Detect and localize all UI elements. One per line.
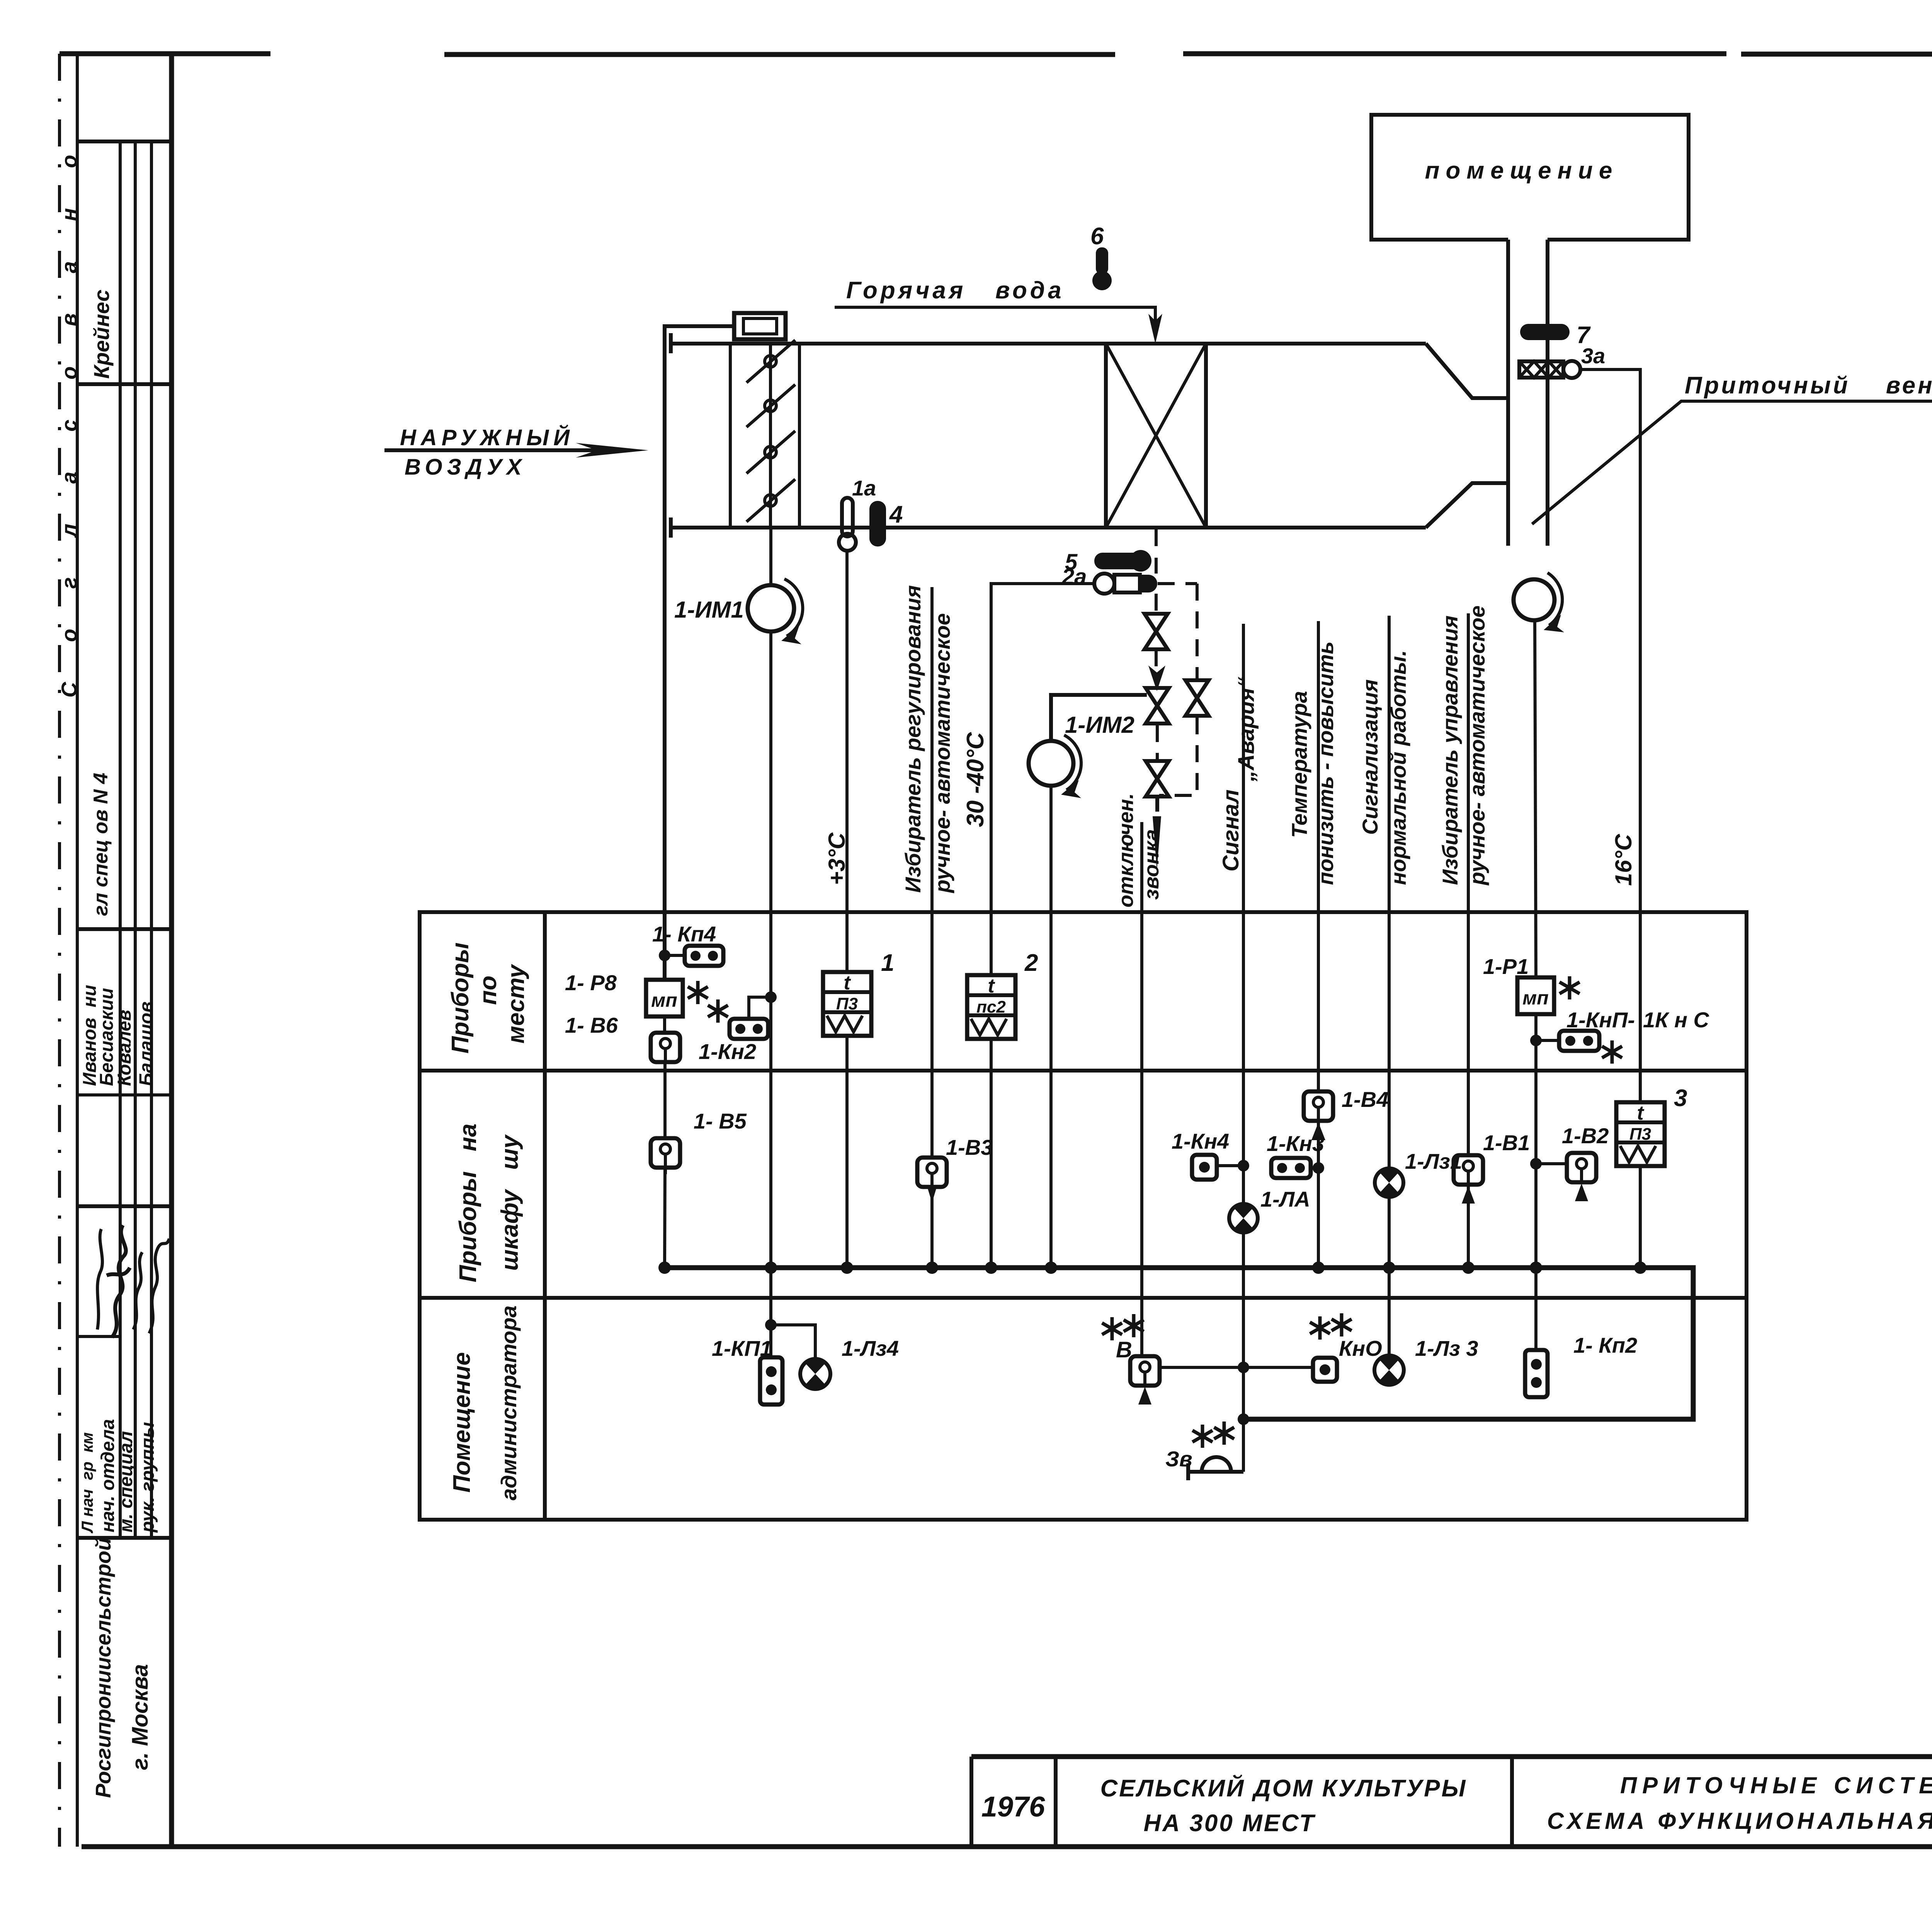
stamp column left rule <box>76 54 79 1847</box>
svg-text:3а: 3а <box>1581 344 1605 368</box>
stamp divider 3 <box>77 927 172 931</box>
junction to 1-Kp4 <box>659 950 670 961</box>
cabinet bus <box>665 1268 1693 1419</box>
sensor 2a body <box>1114 575 1140 592</box>
stamp signature squiggle 3 <box>133 1252 142 1330</box>
lamp 1-Lz1 <box>1375 1168 1403 1197</box>
wire IM2 down <box>1049 786 1053 1268</box>
stamp divider 4 <box>77 1093 172 1096</box>
svg-text:шкафу шу: шкафу шу <box>497 1134 523 1271</box>
stamp inner rule c <box>150 141 153 1538</box>
svg-text:Горячая вода: Горячая вода <box>846 277 1065 304</box>
lamp 1-Lz4 <box>800 1359 830 1389</box>
switch 1-V1 <box>1454 1155 1483 1185</box>
svg-text:понизить - повысить: понизить - повысить <box>1313 642 1338 885</box>
bus node 5 <box>985 1262 997 1274</box>
wire bus to Kp2 <box>1534 1268 1537 1350</box>
stamp inner rule a <box>119 141 122 1538</box>
AHU outlet taper bottom <box>1426 483 1508 528</box>
bus node 7 <box>1312 1262 1325 1274</box>
long drain arrow <box>1153 816 1161 870</box>
damper actuator box <box>734 313 786 339</box>
svg-text:пс2: пс2 <box>976 998 1006 1016</box>
svg-text:t: t <box>844 972 851 994</box>
wire MP to V6 <box>663 1016 666 1033</box>
dashed valve1 to arrow <box>1155 651 1158 672</box>
svg-text:НА 300 МЕСТ: НА 300 МЕСТ <box>1144 1810 1316 1837</box>
svg-text:П3: П3 <box>836 994 858 1013</box>
louver blade 3 <box>747 431 795 473</box>
duct inlet tick top <box>669 333 673 353</box>
valve V2 <box>1146 688 1169 724</box>
duct bottom wall <box>671 526 1426 529</box>
svg-text:рук. группы: рук. группы <box>138 1422 158 1533</box>
svg-text:В: В <box>1116 1337 1132 1362</box>
avaria wire lamp to lower bus <box>1242 1233 1245 1419</box>
wire damper to IM1 <box>769 528 772 585</box>
svg-text:1К н С: 1К н С <box>1643 1008 1710 1032</box>
svg-text:м. специал: м. специал <box>116 1431 136 1533</box>
table row divider 2 <box>420 1296 1747 1300</box>
dashed drop from duct <box>1155 528 1158 574</box>
svg-text:4: 4 <box>889 501 903 528</box>
stamp divider 6 short <box>77 1335 120 1338</box>
label stars V <box>1102 1317 1122 1340</box>
stamp signature squiggle 2 <box>107 1225 130 1337</box>
sensor 2a black cap <box>1140 575 1157 592</box>
link V KnO <box>1160 1366 1313 1369</box>
bus node 1 <box>658 1262 671 1274</box>
fan duct left wall <box>1506 240 1510 546</box>
thermometer 6 bulb <box>1092 271 1112 290</box>
svg-text:2а: 2а <box>1061 564 1087 589</box>
svg-text:1-Кн2: 1-Кн2 <box>699 1039 756 1064</box>
svg-text:1-В3: 1-В3 <box>946 1135 993 1159</box>
actuator link IM2 to valve2 <box>1051 695 1147 741</box>
sensor 3a body <box>1519 361 1563 378</box>
svg-text:1- В5: 1- В5 <box>694 1109 747 1133</box>
wire V4 to bus <box>1317 1121 1320 1268</box>
instrument 1 t P3 <box>823 972 871 1036</box>
actuator 1-IM2 circle <box>1029 741 1073 786</box>
switch 1-V3 <box>917 1158 947 1187</box>
svg-text:Избиратель управления: Избиратель управления <box>1438 615 1462 885</box>
svg-text:ПРИТОЧНЫЕ СИСТЕМЫ ПС1 (ПС: ПРИТОЧНЫЕ СИСТЕМЫ ПС1 (ПС2) <box>1620 1772 1932 1798</box>
dashed capsule to valve 1 <box>1155 594 1158 614</box>
heater box right wall <box>1204 344 1208 528</box>
fan motor rotation arc <box>1548 573 1562 625</box>
sensor 2a circle <box>1094 574 1114 594</box>
stamp inner rule b <box>134 141 137 1538</box>
wire Lz1 to bus <box>1388 1197 1391 1268</box>
svg-text:Сигнализация: Сигнализация <box>1358 679 1382 835</box>
svg-text:П3: П3 <box>1629 1125 1651 1144</box>
switch 1-V6 <box>651 1033 680 1062</box>
svg-text:t: t <box>988 975 995 997</box>
button 1-Kn2 <box>730 1019 768 1039</box>
louver damper axis <box>769 344 772 528</box>
wire R1 column through shkaf row <box>1534 1014 1537 1268</box>
starter MP 1-R8 <box>646 980 683 1016</box>
wire selector-control column <box>1467 613 1470 1155</box>
title block top line <box>971 1754 1932 1759</box>
svg-text:6: 6 <box>1090 223 1104 250</box>
fan wire down <box>1535 620 1536 977</box>
svg-text:Сигнал: Сигнал <box>1218 790 1243 872</box>
duct top wall <box>671 342 1426 346</box>
admin drop junction <box>769 1268 772 1357</box>
svg-text:1- Кп4: 1- Кп4 <box>652 922 716 946</box>
svg-text:г. Москва: г. Москва <box>128 1664 153 1770</box>
svg-text:1: 1 <box>881 950 894 976</box>
svg-text:1-Кн3: 1-Кн3 <box>1267 1131 1324 1156</box>
svg-text:ВОЗДУХ: ВОЗДУХ <box>405 455 526 480</box>
heater diagonal 2 <box>1106 344 1206 528</box>
stamp divider 5 <box>77 1204 172 1208</box>
svg-text:1976: 1976 <box>981 1791 1045 1823</box>
hot water line <box>835 307 1155 332</box>
thermometer 1a bulb <box>839 534 856 551</box>
duct inlet tick bottom <box>669 518 673 538</box>
bus node 11 <box>1634 1262 1646 1274</box>
wire signalling column <box>1388 616 1391 1168</box>
louver pivot 2 <box>765 400 776 412</box>
fan motor circle <box>1514 579 1554 620</box>
bus node 4 <box>926 1262 938 1274</box>
stamp divider 2 <box>77 382 172 386</box>
button 1-Kn4 <box>1192 1155 1217 1180</box>
star KnP <box>1602 1040 1622 1064</box>
thermometer 6 stem <box>1096 247 1108 274</box>
svg-text:по: по <box>475 976 502 1005</box>
svg-text:нормальной работы.: нормальной работы. <box>1386 650 1410 885</box>
svg-text:+3°С: +3°С <box>824 832 850 885</box>
svg-text:30 -40°С: 30 -40°С <box>962 732 989 827</box>
junction V2 <box>1530 1158 1542 1170</box>
star R1 <box>1560 976 1580 999</box>
louver blade 2 <box>747 385 795 427</box>
sensor 3a circle <box>1563 361 1580 378</box>
fan duct right wall <box>1546 240 1549 546</box>
filter section wall right <box>798 344 801 528</box>
wire 16C column <box>1580 369 1640 1102</box>
svg-text:1-Лз4: 1-Лз4 <box>842 1336 899 1360</box>
svg-text:1-В2: 1-В2 <box>1562 1124 1609 1148</box>
svg-text:НАРУЖНЫЙ: НАРУЖНЫЙ <box>400 425 574 450</box>
stamp signature squiggle 4 <box>149 1239 169 1333</box>
svg-text:Приточный вентилятор: Приточный вентилятор <box>1685 372 1932 399</box>
svg-text:администратора: администратора <box>497 1306 521 1500</box>
wire instr2 to bus <box>990 1039 993 1268</box>
bypass dashed top <box>1158 582 1197 585</box>
damper actuator feed line <box>665 326 734 980</box>
AHU outlet taper top <box>1426 344 1508 398</box>
svg-text:1-Кн4: 1-Кн4 <box>1172 1129 1229 1153</box>
svg-text:1-ИМ2: 1-ИМ2 <box>1065 712 1134 738</box>
wire instr3 to bus <box>1639 1166 1642 1268</box>
svg-text:ручное- автоматическое: ручное- автоматическое <box>1465 606 1489 886</box>
button KnO <box>1313 1358 1337 1382</box>
svg-text:1- Р8: 1- Р8 <box>565 970 617 995</box>
thermometer 5 body <box>1094 553 1141 569</box>
svg-text:Приборы на: Приборы на <box>455 1124 481 1282</box>
wire V6 to V5 <box>663 1062 667 1138</box>
outside air arrow <box>384 448 607 452</box>
button 1-Kn3 <box>1271 1158 1311 1178</box>
louver pivot 3 <box>765 446 776 458</box>
title block verticals <box>971 1757 1932 1847</box>
valve3 outlet stub <box>1155 797 1159 812</box>
lamp 1-Lz3 <box>1374 1355 1404 1385</box>
bus node 2 <box>765 1262 777 1274</box>
damper 7 <box>1520 324 1570 340</box>
svg-text:1-КнП-: 1-КнП- <box>1566 1008 1635 1032</box>
switch 1-V2 <box>1567 1153 1596 1182</box>
svg-text:1- В6: 1- В6 <box>565 1013 618 1037</box>
svg-text:1-Р1: 1-Р1 <box>1483 954 1529 979</box>
label stars bell <box>1192 1425 1213 1448</box>
svg-text:„Авария“: „Авария“ <box>1234 677 1259 782</box>
label stars KnO <box>1310 1316 1330 1340</box>
svg-text:нач. отдела: нач. отдела <box>98 1419 118 1532</box>
svg-text:Избиратель регулирования: Избиратель регулирования <box>901 585 925 893</box>
instrument 2 t ps2 <box>967 975 1015 1039</box>
svg-text:Ковалев: Ковалев <box>114 1010 135 1086</box>
svg-text:Крейнес: Крейнес <box>89 289 114 379</box>
wire V3 to bus <box>930 1187 934 1268</box>
trim dash-dot line left <box>58 54 61 1847</box>
wire temperature column <box>1317 621 1320 1091</box>
star Kn2 <box>708 999 728 1023</box>
svg-text:С о г л а с о в а н о: С о г л а с о в а н о <box>57 138 81 698</box>
damper actuator inner box <box>743 318 777 334</box>
svg-text:1-ЛА: 1-ЛА <box>1260 1187 1310 1211</box>
lamp 1-LA <box>1229 1204 1258 1233</box>
louver pivot 1 <box>765 356 776 367</box>
bus node 10 <box>1530 1262 1542 1274</box>
border top <box>60 54 1932 54</box>
bus node 6 <box>1045 1262 1057 1274</box>
svg-text:Росгипрониисельстрой: Росгипрониисельстрой <box>91 1538 115 1798</box>
bus node 8 <box>1383 1262 1395 1274</box>
svg-text:1-Лз 3: 1-Лз 3 <box>1415 1336 1478 1360</box>
button 1-KnP <box>1559 1031 1599 1051</box>
valve V3 <box>1146 761 1169 797</box>
bus node 3 <box>841 1262 853 1274</box>
control arrow into valve 2 <box>1148 666 1165 691</box>
branch to lamp Lz4 <box>771 1325 815 1359</box>
heater box left wall <box>1104 344 1108 528</box>
svg-text:Зв: Зв <box>1165 1447 1192 1471</box>
svg-text:СХЕМА ФУНКЦИОНАЛЬНАЯ ПРОИЗВ: СХЕМА ФУНКЦИОНАЛЬНАЯ ПРОИЗВОДСТВЕННАЯ <box>1547 1808 1932 1834</box>
svg-text:1-В4: 1-В4 <box>1342 1087 1388 1112</box>
svg-text:гл спец ов N 4: гл спец ов N 4 <box>90 773 112 916</box>
svg-text:3: 3 <box>1674 1085 1687 1112</box>
louver pivot 4 <box>765 495 776 506</box>
svg-text:1-КП1: 1-КП1 <box>712 1336 772 1360</box>
svg-text:Балашов: Балашов <box>136 1001 156 1086</box>
bus node 9 <box>1462 1262 1475 1274</box>
valve V4 <box>1185 680 1209 716</box>
svg-text:отключен.: отключен. <box>1114 793 1138 907</box>
1-IM2 rotation arc <box>1064 735 1081 790</box>
svg-text:Помещение: Помещение <box>449 1352 475 1493</box>
table header column divider <box>543 912 547 1520</box>
svg-text:КнО: КнО <box>1339 1336 1382 1360</box>
wire IM1 down <box>769 632 772 1268</box>
switch 1-V4 <box>1304 1091 1333 1121</box>
valve V1 <box>1145 614 1168 649</box>
room box <box>1371 115 1689 240</box>
svg-text:ручное- автоматическое: ручное- автоматическое <box>930 613 954 894</box>
thermometer 1a capsule <box>842 498 853 536</box>
hot water arrow <box>1148 314 1162 344</box>
thermometer 5 bulb <box>1130 550 1151 572</box>
wire V1 to bus <box>1467 1185 1470 1268</box>
svg-text:СЕЛЬСКИЙ ДОМ КУЛЬТУРЫ: СЕЛЬСКИЙ ДОМ КУЛЬТУРЫ <box>1100 1774 1467 1802</box>
table outline <box>420 912 1747 1520</box>
svg-text:мп: мп <box>1522 987 1549 1009</box>
wire bus to Lz3 <box>1388 1268 1391 1355</box>
bell drop wire <box>1242 1419 1245 1472</box>
switch 1-V5 <box>651 1138 680 1168</box>
supply fan leader <box>1532 401 1932 524</box>
svg-text:помещение: помещение <box>1425 157 1619 184</box>
dashed valve2 to valve3 <box>1156 725 1159 760</box>
svg-text:1-ИМ1: 1-ИМ1 <box>674 597 744 623</box>
actuator 1-IM1 circle <box>748 585 794 632</box>
svg-text:звонка: звонка <box>1140 829 1163 900</box>
stamp divider 7 <box>77 1536 172 1540</box>
svg-text:1а: 1а <box>852 476 876 500</box>
junction V4 Kn3 <box>1313 1162 1324 1174</box>
svg-text:месту: месту <box>503 964 529 1044</box>
wire V5 to bus <box>665 1168 665 1268</box>
sensor 4 capsule <box>869 501 886 546</box>
louver blade 4 <box>747 479 795 522</box>
wire 30-40C column <box>991 584 1094 975</box>
star R8 <box>688 981 708 1004</box>
switch V admin <box>1130 1356 1160 1386</box>
louver blade 1 <box>747 340 795 383</box>
junction to 1-Kn2 <box>765 991 777 1003</box>
stamp column right thick rule <box>169 54 174 1847</box>
border bottom <box>82 1844 1932 1849</box>
junction to 1-KnP <box>1530 1035 1542 1046</box>
svg-text:1-В1: 1-В1 <box>1483 1130 1530 1155</box>
link Kn4 to avaria wire <box>1217 1164 1243 1167</box>
svg-text:Температура: Температура <box>1287 691 1311 838</box>
bypass dashed bottom <box>1159 717 1197 795</box>
svg-text:t: t <box>1637 1102 1645 1124</box>
wire signal-avaria column <box>1242 624 1245 1204</box>
1-IM1 rotation arc <box>784 579 803 636</box>
svg-text:16°С: 16°С <box>1611 833 1636 886</box>
svg-text:Л нач гр км: Л нач гр км <box>78 1432 96 1534</box>
button 1-Kp4 <box>685 946 723 966</box>
sensor 3a hatch <box>1519 361 1563 378</box>
wire +3C column <box>845 551 849 972</box>
svg-text:1- Кп2: 1- Кп2 <box>1573 1333 1637 1357</box>
wire bell-off column <box>1140 822 1143 1356</box>
bell symbol <box>1188 1457 1243 1480</box>
indicator button 1-KP1 <box>760 1357 782 1405</box>
filter section wall left <box>729 344 732 528</box>
stamp signature squiggle 1 <box>97 1229 102 1330</box>
stamp divider 1 <box>77 140 172 143</box>
wire selector-regulation column <box>930 587 934 1158</box>
instrument 3 t P3 <box>1616 1102 1665 1166</box>
svg-text:2: 2 <box>1024 950 1038 976</box>
table row divider 1 <box>420 1069 1747 1073</box>
heater diagonal 1 <box>1106 344 1206 528</box>
svg-text:Приборы: Приборы <box>447 943 474 1054</box>
svg-text:мп: мп <box>651 989 677 1011</box>
starter MP 1-R1 <box>1517 977 1554 1014</box>
indicator button 1-Kp2 <box>1525 1350 1548 1397</box>
bypass dashed right down <box>1196 584 1199 679</box>
wire instr1 to bus <box>845 1036 849 1268</box>
